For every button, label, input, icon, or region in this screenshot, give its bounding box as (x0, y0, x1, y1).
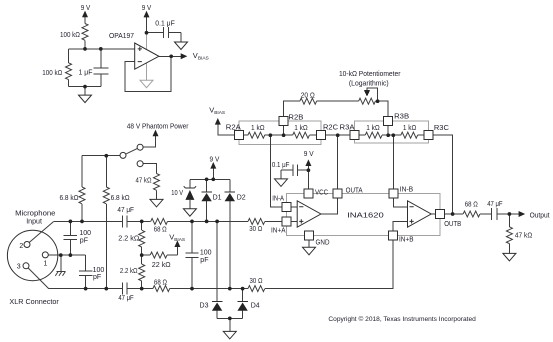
node chassis gnd (59, 253, 63, 257)
supply 9V arrow (INA1620) (307, 165, 309, 170)
svg-text:IN+B: IN+B (399, 236, 414, 243)
svg-text:D2: D2 (237, 194, 246, 201)
wire IN+A to op-amp (291, 220, 297, 222)
pin VCC (304, 189, 313, 198)
arrowhead 9V INA (305, 159, 311, 166)
arrowhead 9V clamp (210, 162, 216, 169)
node R2B join (282, 133, 286, 137)
XLR pin 1 (42, 252, 48, 258)
capacitor 100pF middle (185, 221, 198, 288)
wire OUTA up to R2C/R3A node (337, 135, 339, 189)
svg-text:100: 100 (79, 230, 91, 237)
svg-text:48 V Phantom Power: 48 V Phantom Power (127, 121, 189, 130)
svg-text:1 kΩ: 1 kΩ (403, 123, 417, 132)
node diode gnd bus (228, 317, 232, 321)
diode D1 (201, 192, 211, 201)
svg-text:6.8 kΩ: 6.8 kΩ (60, 193, 79, 202)
pin R3B (384, 117, 393, 126)
arrowhead VBIAS R2A (215, 118, 221, 125)
resistor 2.2k lower (141, 255, 143, 264)
R2 network package outline (gray) (239, 121, 321, 144)
node output (508, 212, 512, 216)
supply 9V arrow (bias divider) (84, 16, 86, 23)
wire R3A internal rail (359, 134, 365, 136)
svg-text:IN-B: IN-B (400, 187, 414, 194)
resistor 20 ohm (300, 98, 317, 104)
resistor 6.8k left (81, 156, 83, 187)
wire XLR pin3 to bottom rail (28, 268, 49, 289)
svg-text:Input: Input (26, 216, 43, 225)
svg-text:100: 100 (93, 267, 105, 274)
wire bottom (69, 86, 101, 88)
node 100pF upper top (69, 220, 73, 224)
node 100pF upper bottom (69, 253, 73, 257)
svg-text:9 V: 9 V (81, 3, 91, 12)
svg-text:VCC: VCC (315, 189, 328, 196)
svg-text:100 kΩ: 100 kΩ (60, 30, 80, 39)
capacitor 47uF bottom (122, 283, 127, 295)
capacitor 47uF top (122, 215, 127, 227)
svg-text:68 Ω: 68 Ω (465, 199, 478, 208)
capacitor 1uF (93, 49, 108, 87)
node divider bottom (83, 85, 87, 89)
node 6.8k left (80, 220, 84, 224)
wire R2B to 20 ohm (284, 101, 300, 117)
wire GND stub (308, 240, 310, 247)
node pot wiper (376, 99, 380, 103)
svg-text:22 kΩ: 22 kΩ (152, 260, 171, 269)
node 6.8k right (104, 287, 108, 291)
svg-text:2.2 kΩ: 2.2 kΩ (120, 266, 138, 275)
pin OUTA (333, 189, 342, 198)
svg-text:IN-A: IN-A (272, 195, 284, 202)
svg-text:OUTB: OUTB (444, 221, 461, 228)
svg-text:R3C: R3C (434, 125, 449, 132)
resistor 68 ohm output (463, 211, 480, 217)
wire op-amp A output to OUTA (321, 198, 338, 214)
node cap 1uF top (99, 47, 103, 51)
svg-text:R3A: R3A (340, 125, 355, 132)
op-amp INA1620 B triangle (408, 201, 432, 227)
svg-text:IN+A: IN+A (271, 227, 286, 234)
ground OPA197 supply (gray) (140, 80, 153, 88)
node OUTB feedback (451, 212, 455, 216)
svg-text:30 Ω: 30 Ω (249, 224, 262, 233)
capacitor 0.1uF INA1620 (281, 165, 308, 179)
diode D4 (237, 302, 247, 311)
svg-text:47 μF: 47 μF (118, 293, 134, 302)
pin IN-B (389, 189, 398, 198)
OPA197 supply rail through op-amp (gray) (146, 33, 148, 80)
supply 9V arrow (clamp) (212, 168, 214, 179)
node D2 (228, 287, 232, 291)
svg-text:R2A: R2A (226, 124, 241, 131)
svg-text:20 Ω: 20 Ω (301, 90, 315, 99)
op-amp U1 OPA197 triangle (135, 43, 159, 69)
wire output arrow (509, 213, 518, 215)
node 100pF mid top (190, 220, 194, 224)
pin R2A (234, 131, 243, 140)
resistor R2 1k first (248, 132, 265, 138)
node divider top (83, 47, 87, 51)
wire to IN+A (265, 220, 282, 222)
resistor 68 ohm top (151, 218, 168, 224)
resistor 6.8k right (105, 156, 107, 187)
resistor R3 1k first (365, 132, 382, 138)
svg-text:10-kΩ Potentiometer: 10-kΩ Potentiometer (339, 69, 401, 78)
wire R2A internal rail (243, 134, 248, 136)
diode D4 wires (242, 289, 244, 319)
svg-text:1: 1 (44, 261, 48, 268)
diode D2 (225, 192, 235, 201)
node R2C-R3A/OUTA (336, 133, 340, 137)
wire op-amp B output (431, 213, 436, 215)
svg-text:68 Ω: 68 Ω (154, 224, 167, 233)
node 22k (140, 253, 144, 257)
ground zener (183, 209, 196, 217)
wire (418, 134, 424, 136)
wire (168, 220, 249, 222)
resistor 100k lower vertical (68, 49, 70, 63)
resistor 22k (142, 254, 151, 256)
wire R3B stub (387, 126, 389, 136)
wire R3C feedback to OUTB node (433, 135, 453, 214)
svg-text:1 kΩ: 1 kΩ (366, 123, 380, 132)
wire R2C to R3A (325, 134, 350, 136)
svg-text:47 kΩ: 47 kΩ (136, 175, 152, 184)
node D4 (241, 287, 245, 291)
svg-text:1 kΩ: 1 kΩ (294, 123, 308, 132)
svg-text:0.1 μF: 0.1 μF (272, 160, 290, 169)
wire (265, 134, 293, 136)
node phantom rail (104, 154, 108, 158)
wire (127, 288, 153, 290)
capacitor 47uF output (492, 208, 510, 220)
svg-text:D4: D4 (251, 303, 260, 310)
svg-text:2: 2 (19, 243, 23, 250)
svg-text:30 Ω: 30 Ω (250, 276, 263, 285)
arrowhead VBIAS out (181, 53, 188, 59)
node 9V clamp bus (211, 177, 215, 181)
diode D2 wires (229, 179, 231, 288)
svg-text:1 kΩ: 1 kΩ (251, 123, 265, 132)
diode D3 (212, 302, 222, 311)
capacitor 100pF lower (79, 255, 92, 289)
pin IN-A (282, 202, 291, 211)
switch lever (125, 148, 138, 154)
capacitor 100pF upper (64, 221, 77, 255)
pin GND (305, 231, 314, 240)
wire R2B stub (283, 126, 285, 136)
resistor 30 ohm bottom (248, 286, 265, 292)
wire OPA197 output (159, 55, 181, 57)
wire switch to 47k (142, 164, 156, 174)
XLR pin 3 (23, 263, 29, 269)
wire R2 tap down to IN-A (270, 135, 282, 207)
wire ground stub (84, 87, 86, 96)
node R2 mid tap (269, 133, 273, 137)
capacitor 0.1uF OPA197 (147, 27, 182, 42)
switch contact phantom (137, 144, 143, 150)
svg-text:pF: pF (93, 274, 101, 281)
ground bias divider (79, 95, 92, 103)
INA1620 package outline (gray) (287, 194, 441, 236)
svg-text:47 μF: 47 μF (117, 205, 134, 214)
wire clamp ground bus (217, 318, 243, 331)
switch contact common (120, 152, 126, 158)
op-amp input polarity marks (138, 47, 414, 224)
pin R3C (424, 131, 433, 140)
svg-text:100: 100 (200, 249, 212, 256)
node D3 (215, 220, 219, 224)
ground INA GND pin (303, 247, 316, 255)
wire bottom rail to IN+B (265, 240, 393, 289)
svg-text:R3B: R3B (394, 114, 409, 121)
svg-text:INA1620: INA1620 (347, 211, 384, 220)
wire phantom rail (82, 155, 121, 157)
ground 47k phantom (150, 199, 163, 207)
diode D3 wires (216, 221, 218, 318)
wire R3 tap down to IN-B (392, 135, 394, 189)
zener diode 10V (184, 186, 196, 200)
op-amp INA1620 A triangle (297, 201, 321, 227)
ground clamp diodes (223, 331, 236, 339)
svg-text:3: 3 (17, 264, 21, 271)
wire VBIAS arrow mid (176, 247, 178, 255)
zener 10V (189, 179, 191, 208)
wire feedback loop OPA197 (125, 56, 171, 91)
ground 0.1uF OPA197 (175, 42, 188, 50)
node R3B join (386, 133, 390, 137)
wire (127, 220, 151, 222)
resistor R3 1k second (401, 132, 418, 138)
pin R2C (316, 131, 325, 140)
node D1 (205, 220, 209, 224)
svg-text:0.1 μF: 0.1 μF (155, 18, 175, 27)
svg-text:D3: D3 (200, 303, 209, 310)
XLR connector shell (7, 230, 57, 280)
R3 network package outline (gray) (355, 121, 429, 143)
svg-text:pF: pF (200, 257, 208, 264)
pin R2B (279, 117, 288, 126)
arrowhead Output (519, 211, 526, 217)
svg-text:10 V: 10 V (171, 188, 183, 197)
potentiometer wiper (367, 88, 378, 101)
node 2.2k top (140, 220, 144, 224)
node D1 bus (205, 177, 209, 181)
ground output 47k (503, 253, 516, 261)
svg-text:GND: GND (316, 239, 330, 246)
svg-text:2.2 kΩ: 2.2 kΩ (118, 234, 139, 243)
node 2.2k bottom (140, 287, 144, 291)
node 9V INA (307, 168, 311, 172)
svg-text:1 μF: 1 μF (79, 67, 93, 76)
node 9V OPA197 (145, 31, 149, 35)
svg-text:(Logarithmic): (Logarithmic) (349, 78, 389, 87)
svg-text:100 kΩ: 100 kΩ (42, 68, 62, 77)
switch contact 47k (137, 161, 143, 167)
svg-text:47 μF: 47 μF (487, 199, 503, 208)
svg-text:D1: D1 (213, 194, 222, 201)
node 100pF mid bottom (190, 287, 194, 291)
wire (382, 134, 401, 136)
wire VCC (307, 170, 309, 189)
svg-text:Output: Output (530, 211, 551, 220)
arrowhead 48V phantom (153, 130, 159, 137)
wire IN+B to op-amp B (393, 221, 408, 231)
svg-text:pF: pF (80, 238, 88, 245)
wire XLR pin1 line (48, 254, 85, 256)
pin R3A (350, 131, 359, 140)
pin IN+B (388, 231, 397, 240)
svg-text:OUTA: OUTA (346, 187, 363, 194)
svg-text:9 V: 9 V (142, 3, 152, 12)
svg-text:R2C: R2C (323, 125, 338, 132)
resistor 68 ohm bottom (153, 286, 170, 292)
arrowhead 9V bias (82, 11, 88, 18)
resistor 30 ohm top (248, 218, 265, 224)
wire clamp bus (190, 178, 230, 180)
resistor R upper 100k vertical (82, 24, 88, 41)
pin OUTB (436, 210, 445, 219)
arrowhead VBIAS mid (174, 240, 180, 247)
wire IN-B to op-amp B (394, 198, 408, 207)
wire XLR pin2 to top rail (29, 221, 54, 242)
svg-text:Copyright © 2018, Texas Instru: Copyright © 2018, Texas Instruments Inco… (328, 315, 476, 323)
resistor 47k output (508, 214, 510, 227)
svg-text:9 V: 9 V (304, 149, 314, 158)
wire (84, 40, 86, 49)
supply 9V arrow (OPA197) (146, 16, 148, 32)
chassis ground (56, 255, 65, 271)
wire (309, 134, 316, 136)
svg-text:R2B: R2B (288, 114, 303, 121)
svg-text:47 kΩ: 47 kΩ (515, 231, 533, 240)
svg-text:XLR Connector: XLR Connector (9, 297, 59, 306)
wire VBIAS to R2A (218, 125, 235, 136)
XLR pin 2 (24, 242, 30, 248)
potentiometer 10k element (359, 98, 376, 104)
wire OUTB to 68 ohm (445, 213, 463, 215)
node 100pF lower bottom (84, 287, 88, 291)
wire pot to R3B (375, 101, 388, 116)
svg-text:6.8 kΩ: 6.8 kΩ (111, 193, 130, 202)
resistor 2.2k upper (141, 221, 143, 230)
diode D1 wires (206, 179, 208, 221)
svg-text:OPA197: OPA197 (109, 31, 134, 40)
svg-text:9 V: 9 V (210, 154, 220, 163)
resistor R2 1k second (293, 132, 310, 138)
wire (170, 288, 248, 290)
svg-text:68 Ω: 68 Ω (154, 277, 167, 286)
wire phantom arrow (142, 136, 155, 147)
wire (317, 100, 359, 102)
wire IN-A to op-amp (291, 206, 297, 208)
wire top rail to op-amp + (69, 48, 135, 50)
arrowhead 9V OPA197 (144, 11, 150, 18)
node R3 mid tap (391, 133, 395, 137)
ground 0.1uF INA (275, 179, 288, 187)
pin IN+A (282, 217, 291, 226)
wire (480, 213, 492, 215)
resistor 47k phantom (154, 174, 160, 191)
node OPA197 output (169, 54, 173, 58)
